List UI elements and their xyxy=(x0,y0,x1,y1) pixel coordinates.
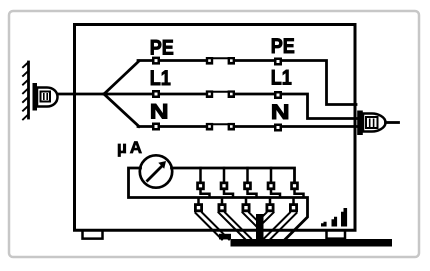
svg-text:N: N xyxy=(150,101,169,124)
svg-text:L1: L1 xyxy=(150,67,171,91)
svg-text:N: N xyxy=(271,101,290,124)
svg-text:µA: µA xyxy=(117,138,145,157)
svg-text:L1: L1 xyxy=(271,66,292,90)
svg-text:PE: PE xyxy=(150,36,174,60)
svg-text:PE: PE xyxy=(271,35,295,59)
